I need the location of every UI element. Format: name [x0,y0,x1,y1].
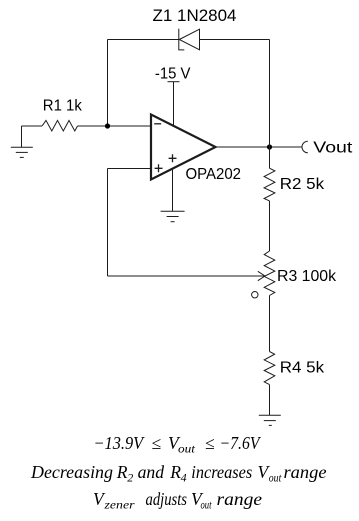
op-amp plus sign (supply) [169,154,177,162]
wire bottom horizontal of feedback loop to R3 wiper [108,275,266,277]
resistor R4 [264,352,275,385]
wire -15V supply to op-amp top [173,82,175,126]
wire left vertical of feedback loop [107,169,109,277]
wire top left horizontal [108,39,180,41]
zener diode Z1 [179,29,200,50]
node A junction dot (R1 / feedback) [105,123,110,128]
svg-text:-15 V: -15 V [155,65,191,82]
wire op-amp non-inverting input to left [108,168,152,170]
svg-text:−13.9V≤Vout≤−7.6V: −13.9V≤Vout≤−7.6V [94,433,262,456]
svg-text:R1 1k: R1 1k [43,98,83,115]
node B junction dot (output rail) [267,144,272,149]
supply tick -15V [168,81,180,83]
wire left vertical from top rail to R1 node [107,40,109,127]
svg-text:VzeneradjustsVoutrange: VzeneradjustsVoutrange [93,489,262,512]
svg-text:R4 5k: R4 5k [280,359,325,376]
svg-text:R2 5k: R2 5k [280,176,325,193]
svg-text:Vout: Vout [313,139,353,156]
wire output node to R2 [269,147,271,168]
wire R4 to bottom ground [269,385,271,416]
resistor R2 [264,168,275,201]
op-amp minus sign [154,123,161,125]
wire from left ground to R1 [22,125,43,127]
svg-text:Z1 1N2804: Z1 1N2804 [153,6,237,25]
svg-text:DecreasingR2andR4increasesVout: DecreasingR2andR4increasesVoutrange [30,462,327,485]
ground (left, at R1) [11,126,33,157]
potentiometer R3 [264,251,275,296]
svg-text:R3 100k: R3 100k [277,268,337,285]
svg-text:OPA202: OPA202 [186,166,242,183]
Vout terminal arc [302,141,308,153]
wiper open-circle marker [252,292,258,298]
wire op-amp output to Vout [216,146,303,148]
resistor R1 [42,120,78,131]
ground (below op-amp) [161,211,185,222]
op-amp plus sign (input) [155,164,163,172]
wire from R1 to op-amp inverting input [78,125,152,127]
wire op-amp bottom to ground [172,169,174,211]
ground (bottom, below R4) [259,415,281,425]
wiper arrowhead at R3 [258,271,265,280]
wire right rail top (zener to output node) [269,40,271,148]
wire top right horizontal [200,39,270,41]
wire R3 to R4 [269,296,271,352]
wire R2 to R3 [269,201,271,251]
op-amp U1 triangle [151,115,216,180]
